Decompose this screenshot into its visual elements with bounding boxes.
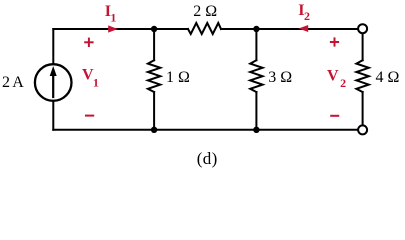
- svg-text:4 Ω: 4 Ω: [376, 69, 400, 86]
- svg-text:1: 1: [93, 76, 99, 90]
- svg-text:2: 2: [304, 9, 310, 23]
- svg-text:3 Ω: 3 Ω: [268, 69, 292, 86]
- svg-text:1: 1: [110, 11, 116, 25]
- svg-text:2: 2: [340, 76, 346, 90]
- svg-text:(d): (d): [197, 149, 218, 168]
- svg-text:V: V: [327, 67, 339, 84]
- svg-text:A: A: [12, 74, 24, 91]
- svg-text:2: 2: [2, 74, 10, 91]
- svg-text:2 Ω: 2 Ω: [193, 3, 217, 20]
- svg-text:1 Ω: 1 Ω: [166, 69, 190, 86]
